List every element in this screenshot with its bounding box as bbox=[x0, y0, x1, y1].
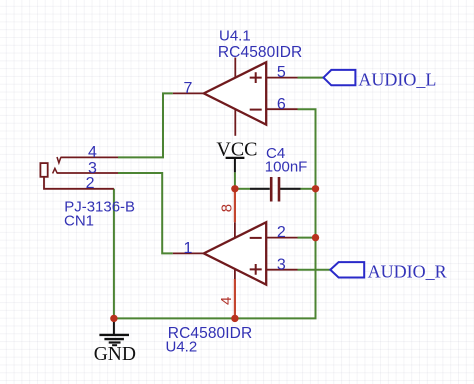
port AUDIO_R outline bbox=[330, 262, 364, 277]
svg-text:2: 2 bbox=[86, 175, 95, 192]
op-amp U4.2 bottom power stub bbox=[234, 269, 236, 279]
op-amp U4.1 pin 7 lead bbox=[173, 92, 204, 94]
power VCC stub bbox=[234, 158, 236, 172]
junction dot pin4 ground bbox=[231, 315, 238, 322]
connector CN1 pin 4 line bbox=[61, 156, 119, 158]
connector CN1 pin 2 line bbox=[44, 177, 114, 189]
wire: U4.1 pin5 to AUDIO_L port bbox=[298, 77, 324, 79]
svg-text:6: 6 bbox=[277, 96, 286, 113]
junction dot C4 right bbox=[312, 185, 319, 192]
ground GND bar 2 bbox=[104, 338, 124, 340]
junction dot GND bbox=[110, 315, 117, 322]
op-amp U4.2 pin 2 lead bbox=[266, 237, 297, 239]
svg-text:1: 1 bbox=[183, 240, 192, 257]
capacitor C4 right plate bbox=[278, 177, 281, 202]
wire: jack pin4 to U4.1 pin7 (vertical+horizontals) bbox=[118, 93, 173, 157]
op-amp U4.2 pin 4 red wire bbox=[234, 279, 236, 318]
capacitor C4 left plate bbox=[270, 177, 273, 202]
op-amp U4.2 pin 1 lead bbox=[173, 252, 204, 254]
svg-text:100nF: 100nF bbox=[265, 159, 308, 176]
svg-text:AUDIO_L: AUDIO_L bbox=[358, 70, 436, 90]
power VCC bar bbox=[226, 157, 245, 159]
wire: jack pin3 to U4.2 pin1 bbox=[118, 173, 173, 253]
svg-text:VCC: VCC bbox=[216, 138, 257, 160]
connector CN1 pin 3 line bbox=[57, 172, 118, 174]
op-amp U4.1 triangle bbox=[204, 62, 266, 124]
wire: VCC stub green part bbox=[234, 172, 236, 189]
connector CN1 pin 3 switch arrow bbox=[53, 168, 58, 173]
svg-text:4: 4 bbox=[218, 297, 235, 305]
svg-text:AUDIO_R: AUDIO_R bbox=[368, 261, 447, 281]
op-amp U4.2 pin 8 red wire bbox=[234, 189, 236, 222]
port AUDIO_L outline bbox=[324, 70, 356, 85]
svg-text:CN1: CN1 bbox=[64, 212, 94, 229]
svg-text:4: 4 bbox=[88, 144, 97, 161]
svg-text:U4.1: U4.1 bbox=[219, 28, 251, 45]
ground GND bar 4 bbox=[112, 344, 117, 346]
op-amp U4.1 minus sign bbox=[250, 109, 262, 111]
capacitor C4 right lead (black) bbox=[280, 188, 301, 190]
ground GND bar 3 bbox=[109, 341, 121, 343]
wire: U4.2 pin3 to AUDIO_R port bbox=[298, 269, 331, 271]
op-amp U4.1 pin 5 lead bbox=[266, 77, 297, 79]
capacitor C4 left lead (black) bbox=[250, 188, 270, 190]
op-amp U4.2 minus sign bbox=[250, 237, 262, 239]
op-amp U4.1 top power stub bbox=[234, 58, 236, 78]
wire: jack pin2 down to ground rail bbox=[113, 189, 115, 319]
svg-text:5: 5 bbox=[277, 64, 286, 81]
ground GND bar 1 bbox=[99, 334, 129, 336]
wire: VCC junction to C4 left bbox=[235, 188, 250, 190]
svg-text:U4.2: U4.2 bbox=[166, 339, 198, 356]
svg-text:RC4580IDR: RC4580IDR bbox=[218, 44, 302, 61]
op-amp U4.2 plus sign bbox=[250, 264, 262, 275]
svg-text:GND: GND bbox=[94, 344, 136, 365]
wire: bottom ground rail bbox=[114, 109, 316, 318]
ground GND stub bbox=[113, 318, 115, 334]
op-amp U4.1 bottom power stub bbox=[234, 109, 236, 136]
op-amp U4.1 pin 6 lead bbox=[266, 108, 297, 110]
op-amp U4.1 plus sign bbox=[250, 72, 262, 83]
wire: C4 right to right vertical bbox=[301, 188, 316, 190]
wire: U4.2 pin2 to right vertical bbox=[298, 237, 316, 239]
svg-text:3: 3 bbox=[277, 257, 286, 274]
connector CN1 jack sleeve rectangle bbox=[40, 163, 47, 177]
op-amp U4.2 pin 3 lead bbox=[266, 269, 297, 271]
junction dot VCC/C4/pin8 bbox=[231, 185, 238, 192]
op-amp U4.2 top power stub bbox=[234, 222, 236, 238]
junction dot pin2 feedback bbox=[312, 234, 319, 241]
connector CN1 pin 4 switch arrow bbox=[57, 157, 61, 163]
op-amp U4.2 triangle bbox=[204, 222, 266, 284]
svg-text:8: 8 bbox=[218, 204, 235, 212]
svg-text:2: 2 bbox=[277, 224, 286, 241]
svg-text:7: 7 bbox=[183, 80, 192, 97]
